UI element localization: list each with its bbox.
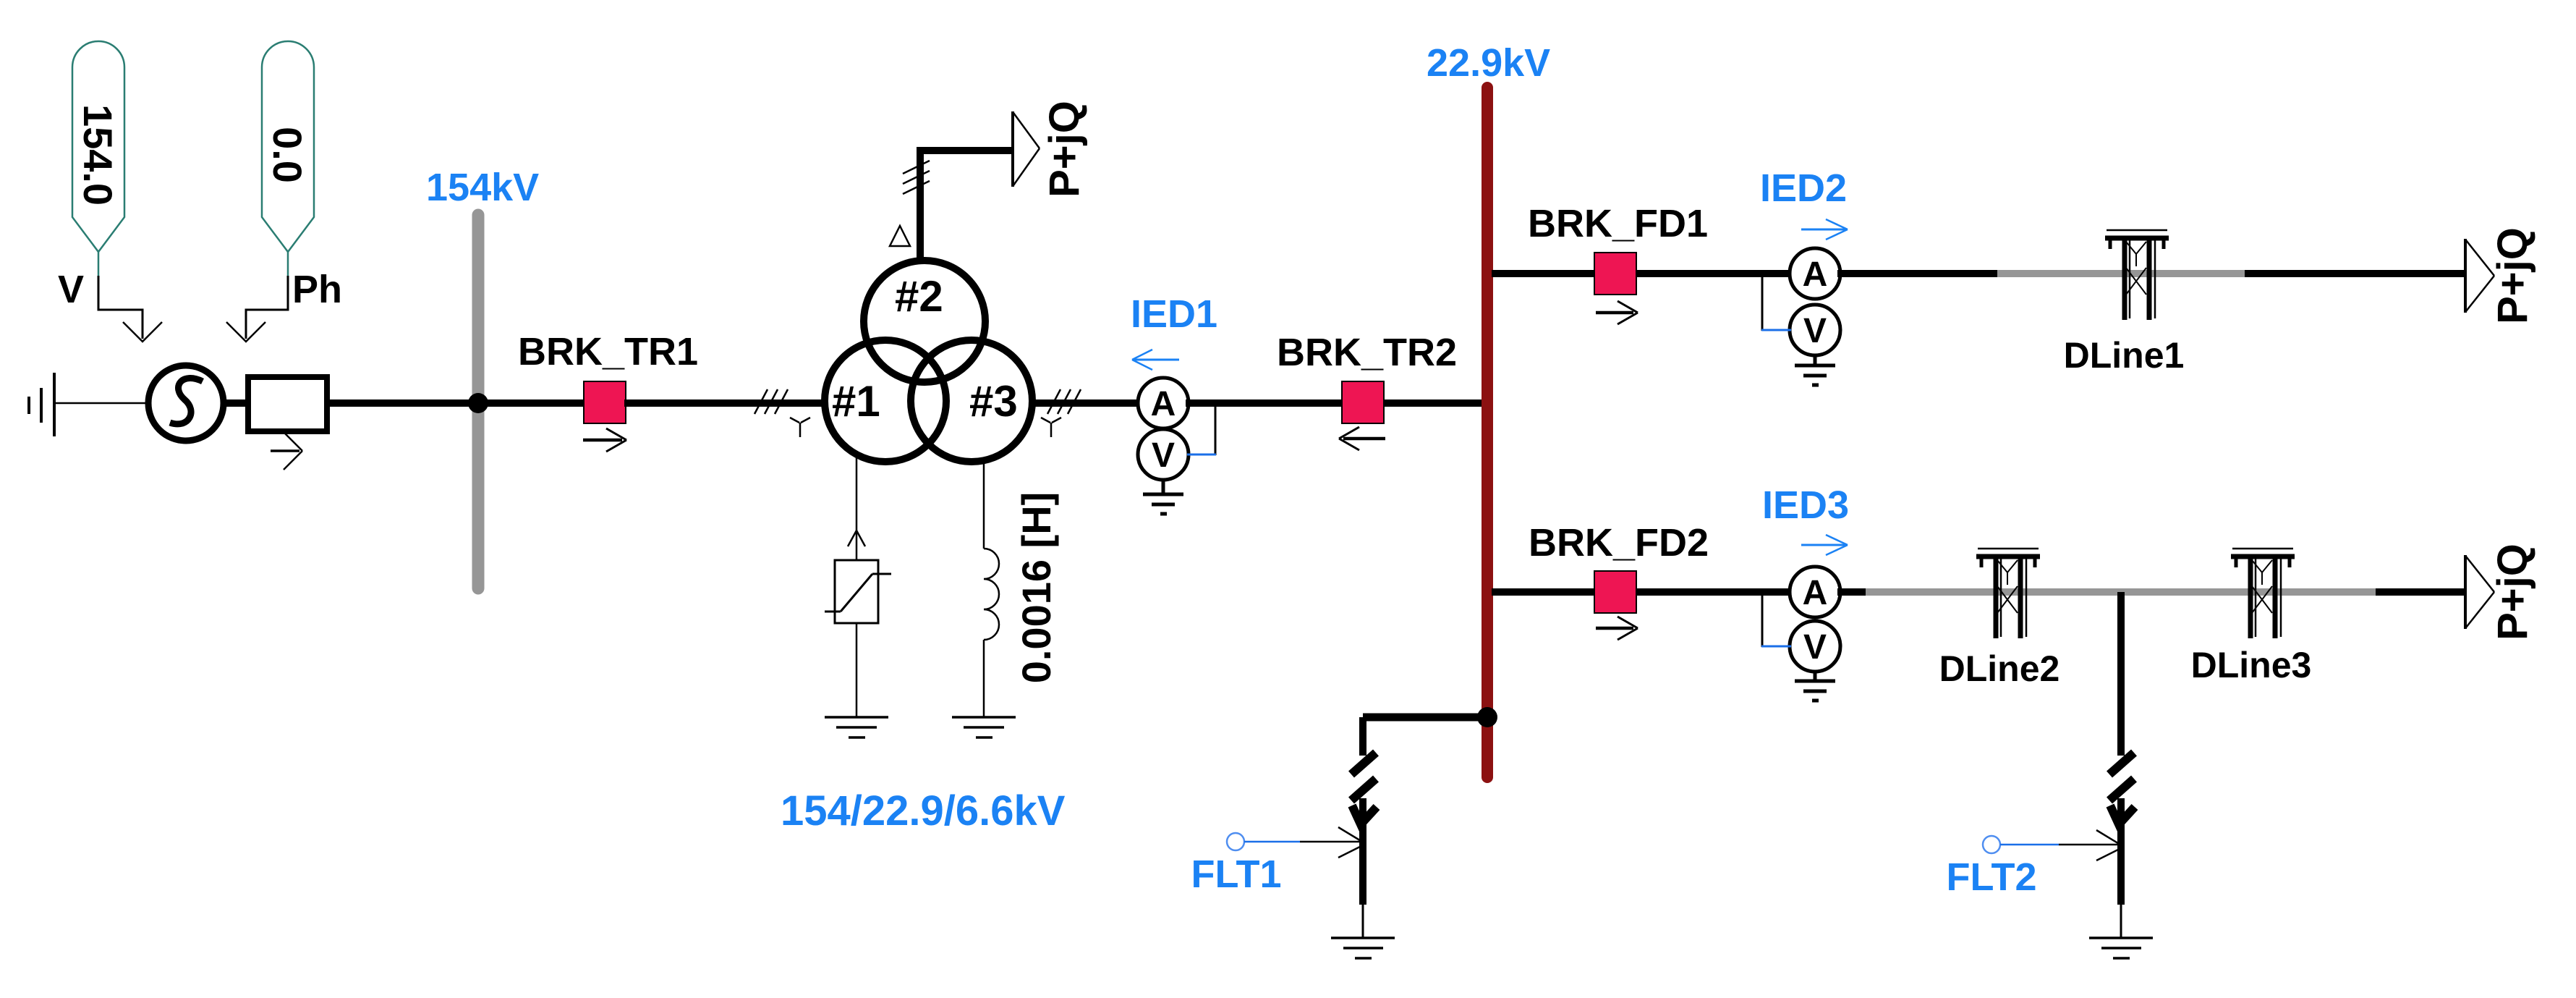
wire impedance to BRK_TR1 <box>327 399 585 407</box>
wye symbol winding 3 <box>1041 418 1061 437</box>
wire source to impedance <box>224 399 248 407</box>
blue wire voltmeter link (IED3) <box>1761 646 1791 648</box>
breaker BRK_FD2 <box>1594 571 1636 613</box>
svg-text:#2: #2 <box>895 272 943 321</box>
wire voltmeter tap (IED3) <box>1761 592 1764 647</box>
svg-text:22.9kV: 22.9kV <box>1427 41 1550 85</box>
svg-text:BRK_FD2: BRK_FD2 <box>1529 521 1709 564</box>
tower icon DLine2 <box>1976 549 2040 638</box>
svg-text:#3: #3 <box>969 377 1018 426</box>
breaker BRK_TR1 <box>584 381 626 423</box>
blue wire voltmeter link (IED2) <box>1761 329 1791 331</box>
svg-text:154kV: 154kV <box>426 166 539 209</box>
tower icon DLine3 <box>2231 549 2295 638</box>
svg-text:BRK_TR1: BRK_TR1 <box>518 330 698 373</box>
wire slider SL1 to source V input <box>98 276 162 342</box>
svg-text:V: V <box>58 268 84 311</box>
wire bus to BRK_FD1 <box>1492 270 1596 277</box>
fault actuator FLT1 <box>1227 827 1366 858</box>
svg-text:IED2: IED2 <box>1760 166 1847 210</box>
breaker BRK_TR2 <box>1342 381 1384 423</box>
svg-text:FLT1: FLT1 <box>1191 853 1282 896</box>
load arrow P+jQ (feeder 1) <box>2465 239 2494 313</box>
winding-1 terminal hash marks <box>754 389 788 414</box>
slider SL1 value 154.0 <box>72 41 124 276</box>
blue wire voltmeter link (IED1) <box>1187 454 1216 456</box>
svg-text:P+jQ: P+jQ <box>2489 544 2536 640</box>
junction node on 154kV bus <box>468 393 488 413</box>
winding-2 hash marks <box>903 161 930 194</box>
arrow IED3 <box>1801 535 1848 555</box>
arrow under BRK_FD1 <box>1596 301 1638 324</box>
wire ammeter A2 to line DLine1 <box>1837 270 1997 277</box>
wire DLine1 to load arrow <box>2245 270 2464 277</box>
svg-text:154/22.9/6.6kV: 154/22.9/6.6kV <box>781 787 1066 834</box>
wire FLT2 to ground <box>2120 905 2122 938</box>
svg-text:DLine3: DLine3 <box>2191 645 2312 685</box>
wire inductor to ground <box>983 640 985 717</box>
voltmeter V (IED3) <box>1790 621 1840 672</box>
wire voltmeter tap (IED2) <box>1761 274 1764 331</box>
output arrow P+jQ (winding 2) <box>1013 111 1040 187</box>
ground (voltmeter IED3) <box>1795 670 1835 701</box>
ground (voltmeter IED1) <box>1143 478 1183 514</box>
impedance block Z1 <box>248 377 327 431</box>
wire BRK_FD1 to ammeter A2 <box>1636 270 1793 277</box>
load arrow P+jQ (feeder 2) <box>2465 555 2494 629</box>
ground (inductor) <box>952 717 1016 737</box>
ground (FLT2) <box>2089 938 2153 958</box>
fault FLT2 <box>2109 753 2135 905</box>
ground (voltmeter IED2) <box>1795 354 1835 385</box>
svg-text:#1: #1 <box>832 377 880 426</box>
junction node FLT1 on bus <box>1477 707 1497 727</box>
svg-text:P+jQ: P+jQ <box>1041 101 1088 198</box>
wire ground to source <box>54 402 150 405</box>
transmission line DLine2/DLine3 (gray section) <box>1866 588 2376 596</box>
svg-text:P+jQ: P+jQ <box>2489 227 2536 324</box>
svg-text:BRK_FD1: BRK_FD1 <box>1528 202 1708 245</box>
arrow under BRK_TR2 <box>1339 427 1385 450</box>
wire voltmeter tap (IED1) <box>1215 403 1217 455</box>
svg-text:0.0: 0.0 <box>265 127 310 183</box>
svg-text:A: A <box>1151 385 1176 423</box>
arrow under BRK_FD2 <box>1596 617 1638 640</box>
wire ammeter A1 to BRK_TR2 <box>1186 399 1342 407</box>
svg-text:DLine1: DLine1 <box>2064 335 2185 376</box>
arrow IED2 <box>1801 219 1848 240</box>
svg-text:154.0: 154.0 <box>75 104 121 206</box>
wire winding 2 to output arrow <box>920 151 1012 262</box>
arrow under BRK_TR1 <box>583 428 626 452</box>
wire BRK_FD2 to ammeter A3 <box>1636 588 1793 596</box>
svg-text:IED3: IED3 <box>1762 483 1849 527</box>
wire DLine3 to load arrow <box>2376 588 2464 596</box>
svg-text:DLine2: DLine2 <box>1939 648 2060 689</box>
svg-text:A: A <box>1803 255 1828 294</box>
arrow on arrester wire <box>848 530 865 546</box>
transformer T1 (3 winding) <box>825 261 1032 462</box>
wire DLine2/3 junction to FLT2 <box>2117 592 2125 756</box>
wire transformer to ammeter A1 <box>1032 399 1141 407</box>
svg-text:V: V <box>1152 436 1175 475</box>
bus 154kV <box>472 215 485 588</box>
surge arrester A1 <box>825 560 891 623</box>
arrow under impedance <box>271 431 302 470</box>
wire ammeter A3 to line DLine2 <box>1837 588 1866 596</box>
svg-text:BRK_TR2: BRK_TR2 <box>1277 331 1457 374</box>
voltmeter V (IED2) <box>1790 305 1840 355</box>
wire bus to FLT1 <box>1363 714 1486 722</box>
ammeter A (IED2) <box>1790 248 1840 299</box>
bus 22.9kV <box>1482 88 1493 777</box>
wire arrester to ground <box>856 623 858 717</box>
svg-text:IED1: IED1 <box>1131 292 1217 336</box>
fault FLT1 <box>1351 717 1377 905</box>
svg-text:V: V <box>1803 312 1827 350</box>
svg-text:0.0016 [H]: 0.0016 [H] <box>1013 492 1059 684</box>
wire FLT1 to ground <box>1362 905 1364 938</box>
svg-text:A: A <box>1803 574 1828 612</box>
svg-text:Ph: Ph <box>292 268 342 311</box>
wire BRK_TR2 to 22.9kV bus <box>1384 399 1484 407</box>
voltage source S1 <box>148 365 224 441</box>
ground (arrester) <box>825 717 888 737</box>
ground (source) <box>29 373 54 436</box>
transmission line DLine1 (gray section) <box>1997 270 2245 277</box>
wire BRK_TR1 to transformer <box>624 399 828 407</box>
winding-3 terminal hash marks <box>1047 389 1081 414</box>
svg-text:V: V <box>1803 628 1827 667</box>
ammeter A (IED3) <box>1790 567 1840 617</box>
tower icon DLine1 <box>2105 230 2169 320</box>
wye symbol winding 1 <box>790 418 810 437</box>
svg-text:FLT2: FLT2 <box>1947 855 2037 899</box>
wire winding 3 to inductor <box>983 460 985 549</box>
breaker BRK_FD1 <box>1594 253 1636 295</box>
inductor L1 <box>984 549 999 640</box>
ground (FLT1) <box>1331 938 1395 958</box>
wire slider SL2 to source Ph input <box>226 276 288 342</box>
ammeter A (IED1) <box>1138 378 1189 428</box>
fault actuator FLT2 <box>1983 830 2124 860</box>
wire winding 1 to arrester <box>856 454 858 560</box>
arrow IED1 <box>1132 350 1179 370</box>
delta symbol winding 2 <box>890 226 910 246</box>
voltmeter V (IED1) <box>1138 429 1189 480</box>
wire bus to BRK_FD2 <box>1492 588 1596 596</box>
slider SL2 value 0.0 <box>262 41 314 276</box>
